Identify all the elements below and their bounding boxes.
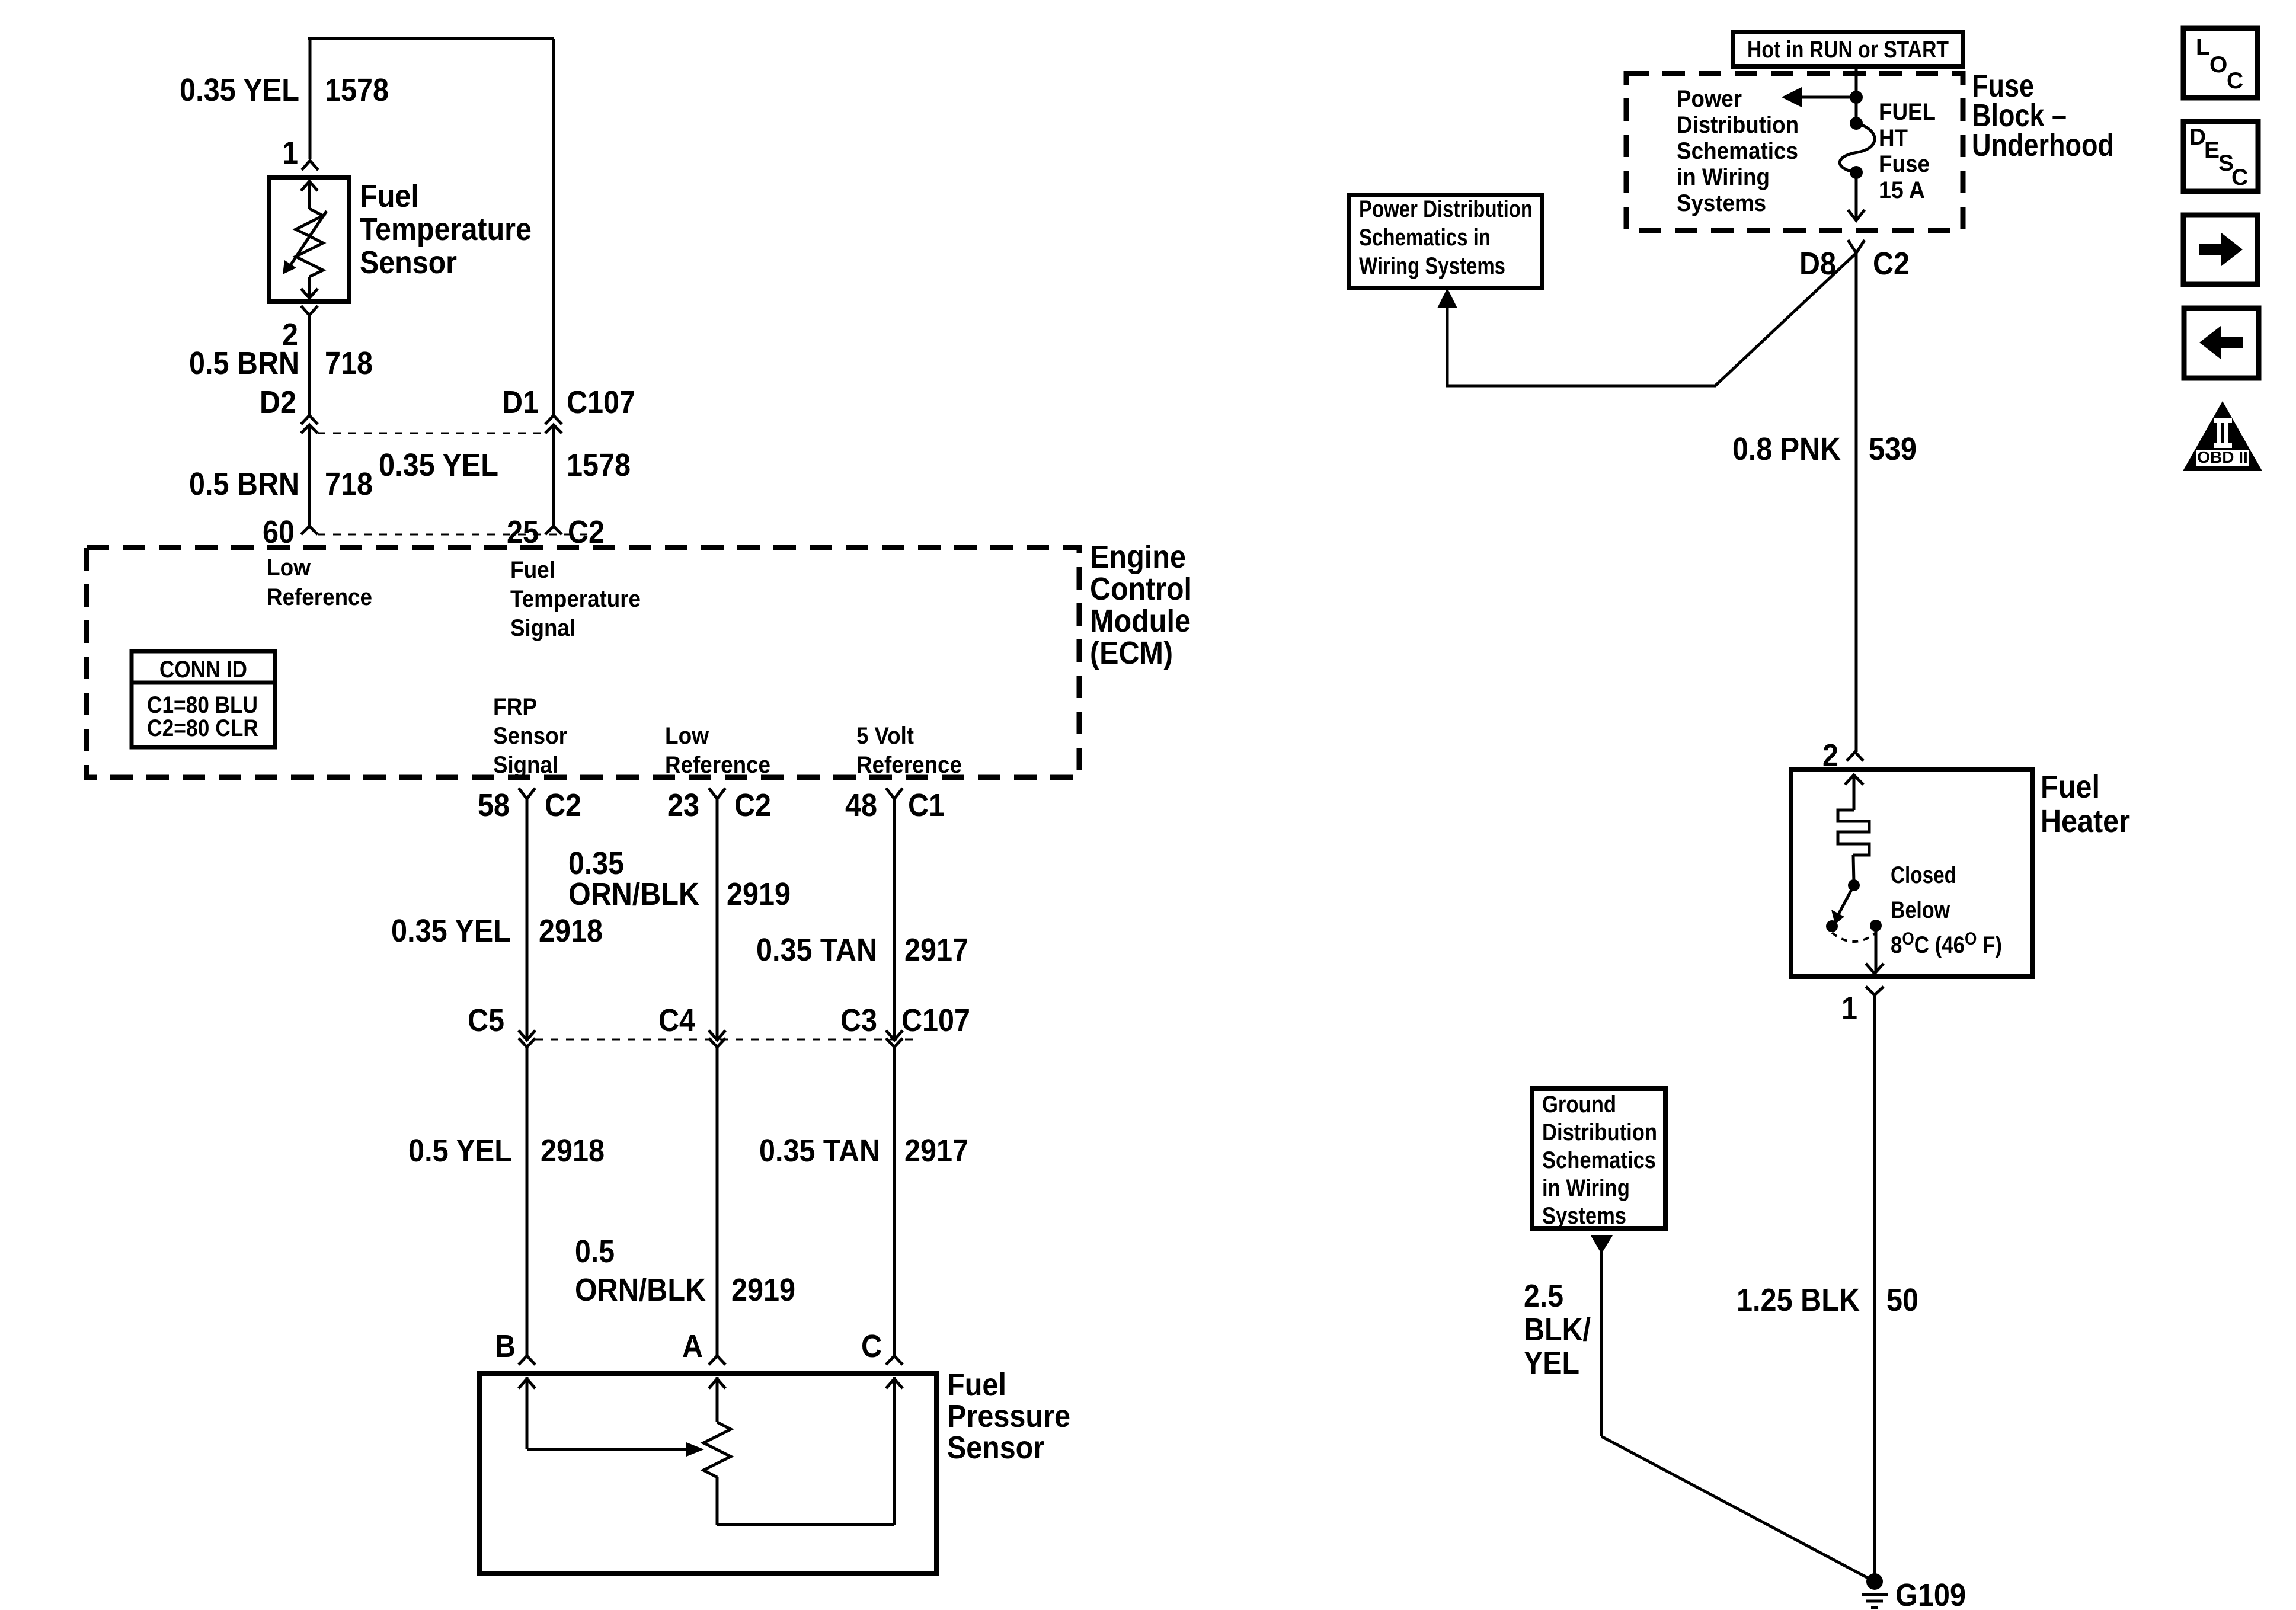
svg-text:C2: C2 bbox=[734, 788, 771, 823]
heater internal down arrowhead bbox=[1866, 964, 1884, 974]
icon back arrow box bbox=[2184, 308, 2259, 378]
connector D8 chevron (C2) bbox=[1848, 240, 1865, 253]
svg-text:Wiring Systems: Wiring Systems bbox=[1359, 253, 1505, 279]
fuse FUEL HT 15A top dot bbox=[1850, 117, 1863, 130]
svg-text:Engine: Engine bbox=[1090, 539, 1186, 575]
svg-text:0.35 YEL: 0.35 YEL bbox=[391, 913, 511, 949]
FPS internal wire B bbox=[526, 1377, 529, 1449]
connector pin 25 chevron (ECM C2) bbox=[545, 526, 562, 534]
svg-text:FRP: FRP bbox=[493, 694, 537, 720]
svg-text:OBD II: OBD II bbox=[2197, 448, 2248, 466]
wire from fuse to block edge bbox=[1855, 172, 1858, 220]
svg-text:60: 60 bbox=[263, 514, 295, 550]
svg-text:Sensor: Sensor bbox=[493, 723, 567, 749]
ground distribution schematics box bbox=[1532, 1089, 1665, 1228]
wire 2.5 BLK/YEL diagonal to G109 bbox=[1601, 1436, 1875, 1582]
svg-text:Fuel: Fuel bbox=[947, 1367, 1006, 1403]
FPS wiper arrowhead bbox=[686, 1442, 704, 1457]
wire 1578 right vertical to D1 bbox=[552, 39, 555, 415]
svg-text:Power Distribution: Power Distribution bbox=[1359, 196, 1533, 222]
heater internal wire bottom bbox=[1875, 926, 1878, 972]
ECM dashed box bbox=[87, 548, 1079, 777]
svg-text:58: 58 bbox=[478, 788, 510, 823]
CONN ID divider bbox=[132, 681, 275, 685]
svg-text:FUEL: FUEL bbox=[1879, 99, 1936, 125]
svg-text:48: 48 bbox=[845, 788, 877, 823]
svg-text:C107: C107 bbox=[567, 385, 635, 420]
switch dashed travel arc bbox=[1832, 933, 1876, 942]
svg-text:Schematics: Schematics bbox=[1677, 138, 1798, 164]
connector D1 chevron upper bbox=[545, 415, 562, 424]
svg-text:ORN/BLK: ORN/BLK bbox=[568, 876, 699, 912]
svg-text:C2: C2 bbox=[1873, 246, 1910, 281]
connector pin 23 chevron (ECM C2) bbox=[709, 788, 725, 799]
svg-text:C4: C4 bbox=[658, 1003, 695, 1038]
connector pin 2 chevron bbox=[301, 306, 318, 315]
fuel temp sensor variable-arrow diagonal bbox=[290, 211, 327, 266]
svg-text:0.5: 0.5 bbox=[575, 1234, 615, 1269]
wire 539 vertical bbox=[1855, 253, 1858, 752]
svg-text:D2: D2 bbox=[260, 385, 296, 420]
CONN ID box bbox=[132, 651, 275, 747]
arrowhead left (power distribution feed) bbox=[1782, 87, 1802, 107]
connector C3 chevron upper bbox=[886, 1030, 903, 1040]
svg-text:2917: 2917 bbox=[904, 1133, 968, 1169]
svg-text:in Wiring: in Wiring bbox=[1542, 1175, 1630, 1201]
svg-text:(ECM): (ECM) bbox=[1090, 635, 1173, 671]
FPS internal wire A lower bbox=[716, 1477, 719, 1525]
wire 2917 upper segment bbox=[893, 799, 896, 1040]
icon forward arrow box bbox=[2183, 215, 2257, 284]
svg-text:C2: C2 bbox=[568, 514, 605, 550]
svg-text:Temperature: Temperature bbox=[510, 586, 641, 612]
svg-text:1: 1 bbox=[1841, 991, 1857, 1026]
svg-text:718: 718 bbox=[325, 466, 373, 502]
svg-text:D8: D8 bbox=[1799, 246, 1836, 281]
FPS internal up arrowhead B bbox=[519, 1379, 535, 1388]
connector pin C chevron bbox=[886, 1356, 903, 1365]
svg-text:C107: C107 bbox=[901, 1003, 970, 1038]
svg-text:23: 23 bbox=[667, 788, 699, 823]
svg-text:C: C bbox=[861, 1329, 882, 1364]
connector D1 chevron lower bbox=[545, 425, 562, 433]
connector pin 58 chevron (ECM C2) bbox=[519, 788, 535, 799]
svg-text:Ground: Ground bbox=[1542, 1092, 1616, 1118]
svg-text:Power: Power bbox=[1677, 86, 1742, 112]
svg-text:Signal: Signal bbox=[493, 752, 558, 778]
svg-text:Reference: Reference bbox=[665, 752, 770, 778]
FPS internal up arrowhead C bbox=[886, 1379, 903, 1388]
svg-text:Fuse: Fuse bbox=[1879, 151, 1930, 177]
fuse block underhood dashed box bbox=[1626, 73, 1963, 231]
svg-text:Temperature: Temperature bbox=[360, 212, 532, 247]
FPS potentiometer zigzag bbox=[703, 1422, 731, 1477]
svg-text:25: 25 bbox=[507, 514, 539, 550]
svg-text:L: L bbox=[2196, 34, 2210, 60]
svg-text:C2=80 CLR: C2=80 CLR bbox=[147, 715, 258, 741]
wire 2919 lower segment bbox=[716, 1047, 719, 1356]
FPS internal wire C bbox=[893, 1377, 896, 1525]
icon LOC box bbox=[2183, 28, 2257, 98]
svg-text:Below: Below bbox=[1891, 897, 1950, 923]
svg-text:Systems: Systems bbox=[1542, 1203, 1626, 1229]
connector C107 dashed line (C5-C4-C3) bbox=[535, 1039, 916, 1041]
svg-text:D: D bbox=[2189, 124, 2206, 150]
wire from hot feed into fuse block bbox=[1855, 66, 1858, 123]
ground G109 dot bbox=[1866, 1573, 1883, 1590]
heater element meander bbox=[1838, 810, 1869, 855]
svg-text:O: O bbox=[2209, 52, 2227, 78]
switch contact dot right bbox=[1870, 920, 1882, 932]
svg-text:C1=80 BLU: C1=80 BLU bbox=[147, 692, 258, 718]
svg-text:Reference: Reference bbox=[267, 584, 372, 610]
svg-text:Distribution: Distribution bbox=[1542, 1119, 1657, 1145]
svg-text:B: B bbox=[495, 1329, 516, 1364]
connector pin 1 chevron (fuel temp sensor) bbox=[302, 161, 318, 170]
fuel temp sensor internal up arrowhead bbox=[301, 181, 318, 191]
connector D2 chevron upper bbox=[301, 415, 318, 424]
connector C2 dashed line at ECM bbox=[318, 534, 593, 536]
fuel heater box bbox=[1791, 769, 2032, 977]
heater internal wire top bbox=[1853, 775, 1856, 810]
svg-text:Reference: Reference bbox=[856, 752, 962, 778]
svg-text:Schematics: Schematics bbox=[1542, 1147, 1656, 1173]
svg-text:2: 2 bbox=[1822, 738, 1838, 773]
fuel temp sensor internal wire bottom bbox=[308, 277, 311, 299]
wire 2918 upper segment bbox=[526, 799, 529, 1040]
wire 50 vertical bbox=[1873, 995, 1876, 1582]
svg-text:HT: HT bbox=[1879, 125, 1908, 151]
svg-text:2919: 2919 bbox=[731, 1272, 795, 1308]
switch arm arrowhead bbox=[1831, 910, 1844, 924]
fuel temp sensor internal wire top bbox=[308, 181, 311, 209]
svg-text:0.35 TAN: 0.35 TAN bbox=[759, 1133, 880, 1169]
svg-text:50: 50 bbox=[1886, 1282, 1918, 1318]
svg-text:Heater: Heater bbox=[2041, 804, 2130, 839]
svg-text:Underhood: Underhood bbox=[1972, 127, 2114, 163]
ground G109 symbol bars bbox=[1862, 1593, 1888, 1596]
wire 1578 top-left vertical bbox=[309, 39, 312, 159]
fuse FUEL HT 15A bottom dot bbox=[1850, 166, 1863, 179]
connector C107 dashed line (D2-D1) bbox=[318, 433, 545, 434]
fuel temp sensor thermistor zigzag bbox=[296, 209, 323, 277]
svg-text:2918: 2918 bbox=[539, 913, 603, 949]
FPS internal up arrowhead A bbox=[709, 1379, 725, 1388]
FPS internal wiper horizontal wire bbox=[527, 1448, 692, 1451]
svg-text:Fuel: Fuel bbox=[510, 557, 555, 583]
svg-text:2918: 2918 bbox=[541, 1133, 605, 1169]
svg-text:Sensor: Sensor bbox=[360, 245, 457, 280]
fuse FUEL HT 15A element curve bbox=[1840, 123, 1875, 172]
FPS internal bottom horizontal wire bbox=[717, 1523, 894, 1526]
svg-text:C: C bbox=[2227, 68, 2243, 94]
wire 2917 lower segment bbox=[893, 1047, 896, 1356]
power distribution schematics box bbox=[1349, 195, 1542, 288]
switch contact dot left bbox=[1826, 920, 1838, 932]
svg-text:Low: Low bbox=[665, 723, 709, 749]
svg-text:Distribution: Distribution bbox=[1677, 112, 1799, 138]
connector C4 chevron upper bbox=[709, 1030, 725, 1040]
svg-text:Fuel: Fuel bbox=[2041, 769, 2100, 805]
down arrowhead at fuse block exit bbox=[1848, 210, 1865, 220]
fuel pressure sensor box bbox=[479, 1374, 936, 1573]
svg-text:Control: Control bbox=[1090, 571, 1192, 607]
svg-text:5 Volt: 5 Volt bbox=[856, 723, 914, 749]
svg-text:0.5 BRN: 0.5 BRN bbox=[189, 466, 299, 502]
svg-text:Low: Low bbox=[267, 555, 311, 581]
wire 1578 lower segment bbox=[552, 425, 555, 526]
svg-text:0.35 YEL: 0.35 YEL bbox=[379, 447, 498, 483]
connector pin A chevron bbox=[709, 1356, 725, 1365]
svg-text:539: 539 bbox=[1869, 431, 1917, 467]
svg-text:Systems: Systems bbox=[1677, 190, 1766, 216]
connector C5 chevron upper bbox=[519, 1030, 535, 1040]
svg-text:15 A: 15 A bbox=[1879, 177, 1925, 203]
svg-text:A: A bbox=[682, 1329, 703, 1364]
wire 2919 upper segment bbox=[716, 799, 719, 1040]
svg-text:Module: Module bbox=[1090, 603, 1191, 639]
connector C3 chevron lower bbox=[886, 1038, 903, 1047]
svg-text:1578: 1578 bbox=[325, 72, 389, 108]
svg-text:ORN/BLK: ORN/BLK bbox=[575, 1272, 706, 1308]
svg-text:Signal: Signal bbox=[510, 615, 575, 641]
wire 2.5 BLK/YEL vertical bbox=[1600, 1251, 1603, 1436]
svg-text:YEL: YEL bbox=[1524, 1345, 1579, 1381]
svg-text:0.35: 0.35 bbox=[568, 846, 624, 881]
connector C5 chevron lower bbox=[519, 1038, 535, 1047]
switch pivot dot bbox=[1848, 879, 1860, 891]
hot in run or start box bbox=[1733, 32, 1963, 66]
svg-text:Closed: Closed bbox=[1891, 862, 1956, 888]
svg-text:1.25 BLK: 1.25 BLK bbox=[1737, 1282, 1860, 1318]
arrowhead up into power distribution schematics box bbox=[1437, 288, 1457, 308]
svg-text:Pressure: Pressure bbox=[947, 1398, 1070, 1434]
FPS internal wire A bbox=[716, 1377, 719, 1422]
svg-text:C5: C5 bbox=[468, 1003, 504, 1038]
connector C4 chevron lower bbox=[709, 1038, 725, 1047]
svg-text:Fuel: Fuel bbox=[360, 178, 419, 214]
svg-text:G109: G109 bbox=[1895, 1577, 1966, 1610]
svg-text:Hot in RUN or START: Hot in RUN or START bbox=[1747, 37, 1949, 63]
svg-text:D1: D1 bbox=[502, 385, 539, 420]
connector heater pin 1 chevron bbox=[1866, 987, 1884, 995]
ground distribution triangle tap bbox=[1591, 1235, 1613, 1254]
svg-text:C: C bbox=[2231, 165, 2248, 190]
wire 1578 top horizontal bbox=[308, 37, 554, 40]
fuel temperature sensor box bbox=[269, 178, 349, 302]
junction dot feed bbox=[1850, 91, 1863, 104]
svg-text:1578: 1578 bbox=[567, 447, 631, 483]
heater wire to switch pivot bbox=[1853, 855, 1854, 883]
svg-text:C3: C3 bbox=[840, 1003, 877, 1038]
svg-text:1: 1 bbox=[282, 135, 298, 171]
svg-text:718: 718 bbox=[325, 345, 373, 381]
connector pin 60 chevron (ECM C2) bbox=[301, 526, 318, 534]
svg-text:C2: C2 bbox=[545, 788, 581, 823]
svg-text:E: E bbox=[2204, 137, 2220, 163]
svg-text:0.8 PNK: 0.8 PNK bbox=[1732, 431, 1841, 467]
svg-text:0.5 YEL: 0.5 YEL bbox=[408, 1133, 512, 1169]
switch arm bbox=[1838, 885, 1854, 914]
connector pin 48 chevron (ECM C1) bbox=[886, 788, 903, 799]
svg-text:0.5 BRN: 0.5 BRN bbox=[189, 345, 299, 381]
connector D2 chevron lower bbox=[301, 425, 318, 433]
svg-text:2917: 2917 bbox=[904, 932, 968, 968]
svg-text:BLK/: BLK/ bbox=[1524, 1312, 1591, 1347]
icon OBD II triangle bbox=[2183, 401, 2262, 471]
svg-text:0.35 YEL: 0.35 YEL bbox=[180, 72, 299, 108]
wire 718 lower segment bbox=[308, 425, 311, 526]
icon DESC box bbox=[2183, 121, 2258, 191]
svg-text:Schematics in: Schematics in bbox=[1359, 225, 1491, 251]
svg-text:CONN ID: CONN ID bbox=[159, 657, 247, 683]
svg-text:in Wiring: in Wiring bbox=[1677, 164, 1770, 190]
wire 2918 lower segment bbox=[526, 1047, 529, 1356]
svg-text:2.5: 2.5 bbox=[1524, 1278, 1563, 1314]
heater internal up arrowhead bbox=[1845, 775, 1863, 785]
svg-text:2919: 2919 bbox=[727, 876, 791, 912]
branch wire to power distribution arrow bbox=[1791, 96, 1856, 99]
connector pin B chevron bbox=[519, 1356, 535, 1365]
wire 718 upper segment bbox=[308, 315, 311, 415]
svg-text:C1: C1 bbox=[908, 788, 945, 823]
connector heater pin 2 chevron bbox=[1847, 752, 1863, 761]
svg-text:Sensor: Sensor bbox=[947, 1430, 1044, 1465]
wire branch diagonal to power distribution schematics bbox=[1447, 253, 1856, 386]
fuel temp sensor internal down arrowhead bbox=[301, 289, 318, 298]
svg-text:0.35 TAN: 0.35 TAN bbox=[756, 932, 877, 968]
